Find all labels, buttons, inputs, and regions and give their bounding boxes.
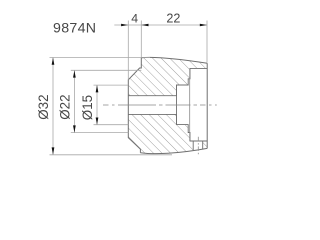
cavity left wall (189, 68, 191, 141)
bore end wall (176, 85, 178, 125)
cavity bottom stair (128, 114, 207, 141)
Ø15 extension top (94, 84, 129, 86)
svg-text:Ø15: Ø15 (80, 95, 95, 120)
svg-text:22: 22 (166, 12, 180, 26)
crown top (141, 57, 207, 63)
Ø22 extension bottom (71, 132, 129, 134)
Ø15 arrow up (96, 85, 99, 92)
svg-text:Ø22: Ø22 (58, 94, 73, 119)
Ø15 arrow down (96, 118, 99, 125)
dim 22 right extension line (206, 21, 208, 63)
hatched section bottom (128, 114, 193, 153)
Ø32 arrow up (52, 58, 55, 65)
Ø15 dimension line (96, 85, 98, 125)
arrow 22 right (200, 24, 207, 27)
Ø22 arrow up (73, 70, 76, 77)
dim 4 extension line left (127, 21, 129, 80)
svg-text:4: 4 (131, 11, 138, 25)
Ø15 extension bottom (94, 124, 129, 126)
Ø22 extension top (71, 69, 142, 71)
dim 4/22 shared extension line (140, 21, 142, 58)
arrow into 4 left (121, 24, 128, 27)
bottom wall hole (193, 141, 203, 150)
Ø22 dimension line (73, 70, 75, 132)
hatched bottom wall right piece (203, 141, 208, 149)
right face (206, 63, 208, 148)
hatched section top (128, 57, 207, 95)
cavity top stair (128, 68, 207, 95)
centerline (103, 104, 217, 106)
crown bottom (140, 148, 207, 153)
arrow 4 right / 22 left (141, 24, 148, 27)
svg-text:Ø32: Ø32 (36, 94, 51, 119)
hole centerline (197, 137, 199, 156)
Ø32 arrow down (52, 147, 55, 154)
Ø32 extension bottom (50, 154, 173, 156)
Ø32 extension top (50, 56, 151, 58)
outline left face and chamfers (128, 58, 141, 153)
Ø22 arrow down (73, 125, 76, 132)
Ø32 dimension line (52, 58, 54, 155)
top dimension line (114, 24, 207, 26)
svg-text:9874N: 9874N (53, 21, 96, 37)
